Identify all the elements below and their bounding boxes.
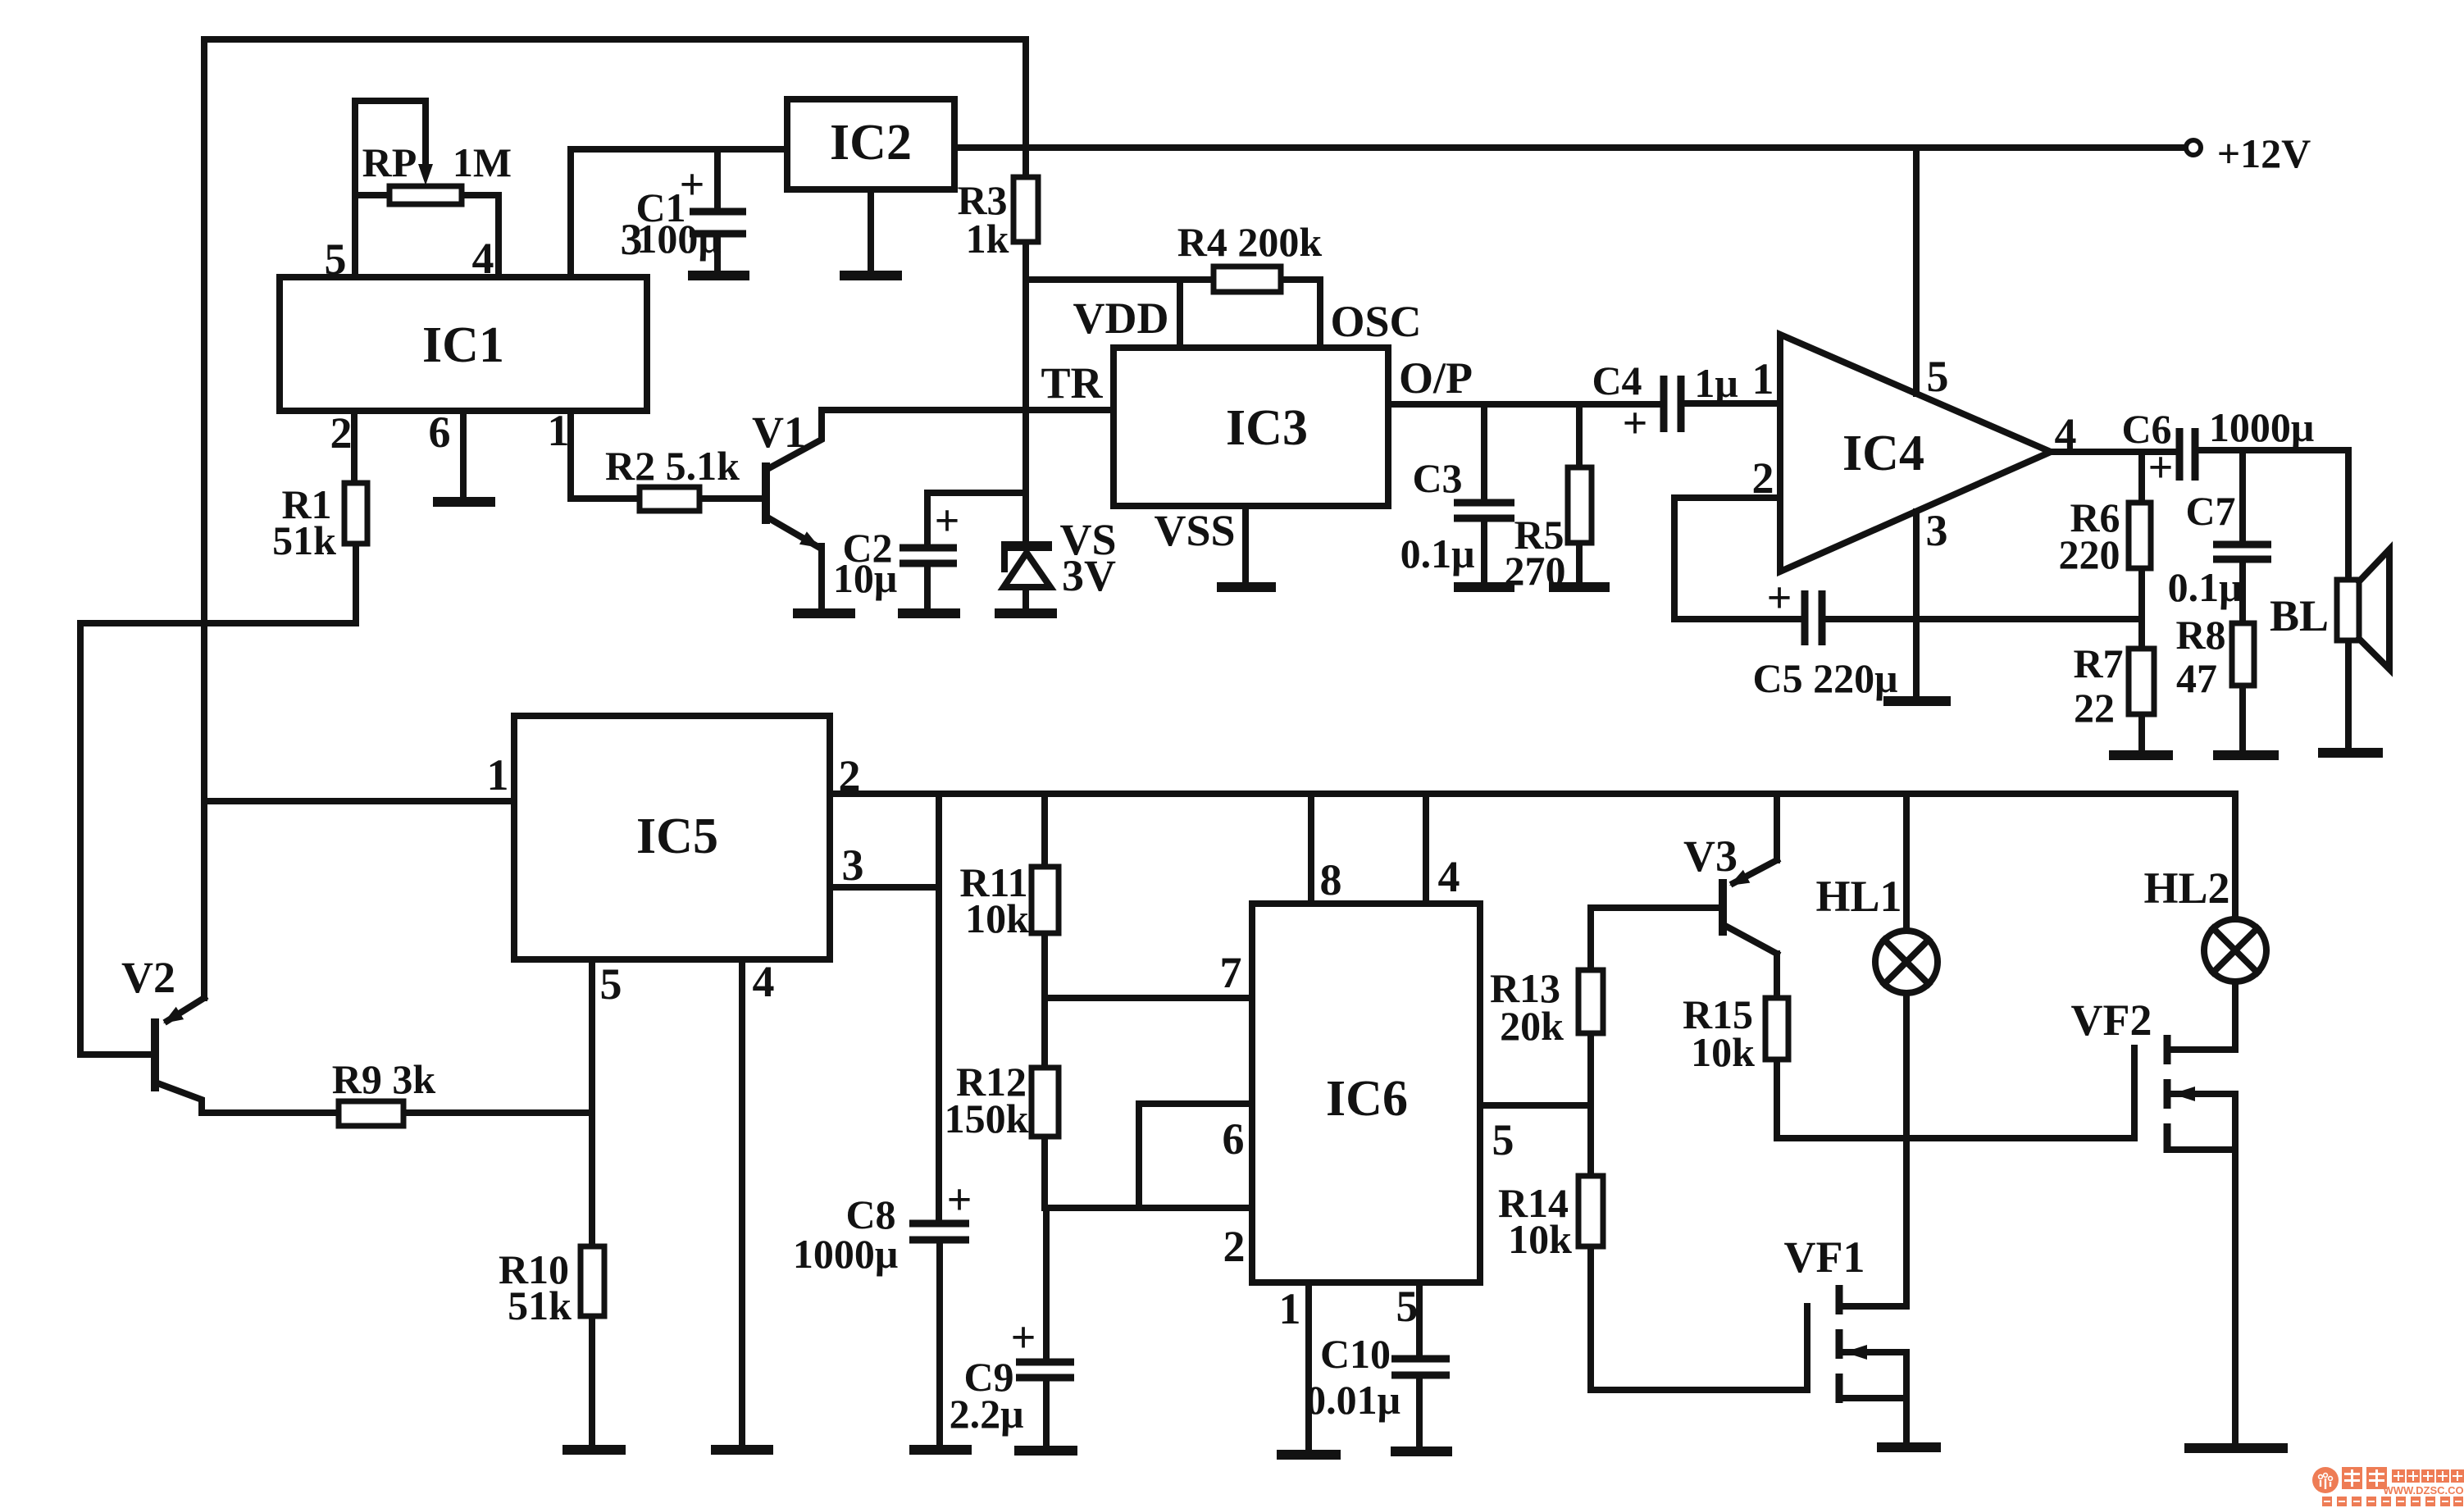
- svg-text:2: 2: [1752, 453, 1774, 503]
- svg-text:R8: R8: [2175, 612, 2225, 658]
- svg-text:2: 2: [839, 751, 861, 800]
- svg-text:6: 6: [1223, 1114, 1245, 1164]
- svg-text:1000μ: 1000μ: [2209, 404, 2314, 450]
- svg-text:1M: 1M: [453, 139, 512, 185]
- svg-text:IC1: IC1: [422, 317, 504, 373]
- svg-text:5: 5: [1927, 352, 1949, 401]
- svg-text:1: 1: [487, 750, 509, 800]
- svg-text:+: +: [947, 1175, 972, 1224]
- svg-text:+: +: [1623, 399, 1648, 448]
- svg-text:RP: RP: [362, 139, 417, 185]
- svg-text:+: +: [2148, 443, 2174, 492]
- svg-text:IC4: IC4: [1842, 426, 1924, 481]
- svg-text:OSC: OSC: [1330, 297, 1421, 346]
- svg-text:R7: R7: [2073, 640, 2123, 686]
- svg-text:+12V: +12V: [2217, 130, 2311, 176]
- svg-text:V1: V1: [752, 408, 806, 457]
- svg-text:C3: C3: [1412, 455, 1462, 501]
- svg-text:BL: BL: [2270, 591, 2329, 640]
- svg-text:R4 200k: R4 200k: [1177, 219, 1323, 265]
- svg-text:3: 3: [1926, 506, 1948, 555]
- svg-text:51k: 51k: [508, 1282, 572, 1328]
- svg-text:TR: TR: [1041, 358, 1103, 408]
- svg-text:IC5: IC5: [636, 809, 718, 864]
- svg-text:1k: 1k: [966, 216, 1009, 262]
- svg-text:10k: 10k: [965, 895, 1029, 941]
- svg-text:VF1: VF1: [1784, 1232, 1865, 1282]
- svg-text:51k: 51k: [272, 517, 336, 563]
- svg-text:R9 3k: R9 3k: [332, 1056, 436, 1102]
- svg-text:+: +: [1011, 1313, 1036, 1362]
- svg-text:HL2: HL2: [2143, 863, 2229, 913]
- svg-text:100μ: 100μ: [636, 216, 721, 262]
- svg-text:5: 5: [1492, 1115, 1514, 1164]
- svg-text:270: 270: [1505, 548, 1566, 594]
- svg-text:C5 220μ: C5 220μ: [1753, 655, 1898, 701]
- svg-text:HL1: HL1: [1815, 872, 1902, 921]
- svg-text:20k: 20k: [1500, 1003, 1564, 1049]
- svg-text:3V: 3V: [1062, 551, 1116, 600]
- svg-text:220: 220: [2059, 531, 2120, 577]
- svg-text:3: 3: [842, 841, 864, 890]
- svg-text:4: 4: [1438, 852, 1460, 901]
- svg-text:2: 2: [330, 408, 353, 458]
- svg-text:WWW.DZSC.COM: WWW.DZSC.COM: [2383, 1484, 2464, 1497]
- svg-text:C4: C4: [1592, 358, 1642, 403]
- svg-text:C10: C10: [1320, 1331, 1391, 1377]
- svg-text:5: 5: [325, 235, 347, 284]
- svg-text:IC2: IC2: [830, 115, 912, 171]
- svg-text:V3: V3: [1683, 831, 1738, 881]
- svg-text:7: 7: [1220, 948, 1242, 997]
- svg-text:1000μ: 1000μ: [793, 1231, 898, 1277]
- svg-text:VF2: VF2: [2071, 995, 2152, 1045]
- svg-text:V2: V2: [121, 953, 175, 1002]
- svg-text:IC3: IC3: [1226, 400, 1308, 456]
- svg-text:47: 47: [2176, 655, 2217, 701]
- svg-text:2: 2: [1223, 1222, 1246, 1271]
- svg-text:IC6: IC6: [1326, 1071, 1408, 1127]
- svg-text:C7: C7: [2185, 488, 2235, 534]
- svg-text:1: 1: [1752, 354, 1774, 403]
- svg-text:R2 5.1k: R2 5.1k: [605, 443, 740, 489]
- svg-text:5: 5: [600, 959, 622, 1009]
- svg-text:6: 6: [429, 408, 451, 457]
- svg-text:2.2μ: 2.2μ: [950, 1391, 1024, 1437]
- svg-text:10k: 10k: [1691, 1029, 1755, 1075]
- svg-text:10k: 10k: [1508, 1216, 1572, 1262]
- svg-text:4: 4: [2055, 409, 2077, 458]
- svg-text:1: 1: [1279, 1284, 1301, 1333]
- svg-text:VSS: VSS: [1154, 506, 1235, 555]
- svg-text:8: 8: [1320, 855, 1342, 904]
- svg-text:VDD: VDD: [1073, 294, 1169, 343]
- svg-text:10μ: 10μ: [833, 555, 897, 601]
- svg-text:0.01μ: 0.01μ: [1305, 1377, 1401, 1423]
- svg-text:4: 4: [753, 957, 775, 1006]
- svg-text:0.1μ: 0.1μ: [2168, 564, 2243, 610]
- svg-text:5: 5: [1396, 1282, 1419, 1331]
- svg-text:0.1μ: 0.1μ: [1401, 531, 1475, 576]
- svg-text:+: +: [1767, 573, 1792, 622]
- svg-text:1μ: 1μ: [1694, 360, 1738, 406]
- svg-text:150k: 150k: [945, 1096, 1029, 1141]
- svg-text:1: 1: [548, 406, 570, 455]
- svg-text:+: +: [680, 160, 705, 209]
- svg-text:22: 22: [2074, 685, 2115, 731]
- svg-text:O/P: O/P: [1399, 353, 1473, 403]
- svg-text:4: 4: [472, 234, 494, 283]
- svg-text:+: +: [935, 496, 960, 545]
